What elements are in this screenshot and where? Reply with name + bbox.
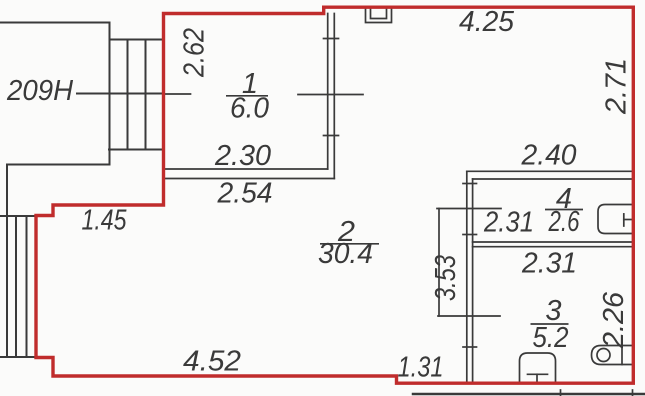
svg-text:1.45: 1.45 (82, 205, 128, 237)
svg-text:2.26: 2.26 (598, 291, 630, 349)
svg-text:2.30: 2.30 (214, 140, 271, 172)
svg-text:4.25: 4.25 (459, 6, 515, 38)
svg-text:2.54: 2.54 (217, 178, 273, 210)
svg-text:2.40: 2.40 (521, 140, 577, 172)
svg-text:1.31: 1.31 (398, 352, 444, 384)
svg-text:3.53: 3.53 (430, 255, 462, 301)
svg-text:2.31: 2.31 (483, 207, 534, 239)
svg-text:6.0: 6.0 (230, 93, 269, 125)
svg-text:2.6: 2.6 (548, 206, 580, 238)
svg-text:4.52: 4.52 (183, 346, 241, 378)
svg-text:2.71: 2.71 (601, 58, 633, 115)
svg-text:30.4: 30.4 (318, 238, 373, 270)
svg-text:2.62: 2.62 (179, 28, 211, 78)
svg-text:5.2: 5.2 (533, 322, 569, 354)
svg-text:2.31: 2.31 (521, 248, 577, 280)
svg-text:209Н: 209Н (6, 75, 73, 107)
